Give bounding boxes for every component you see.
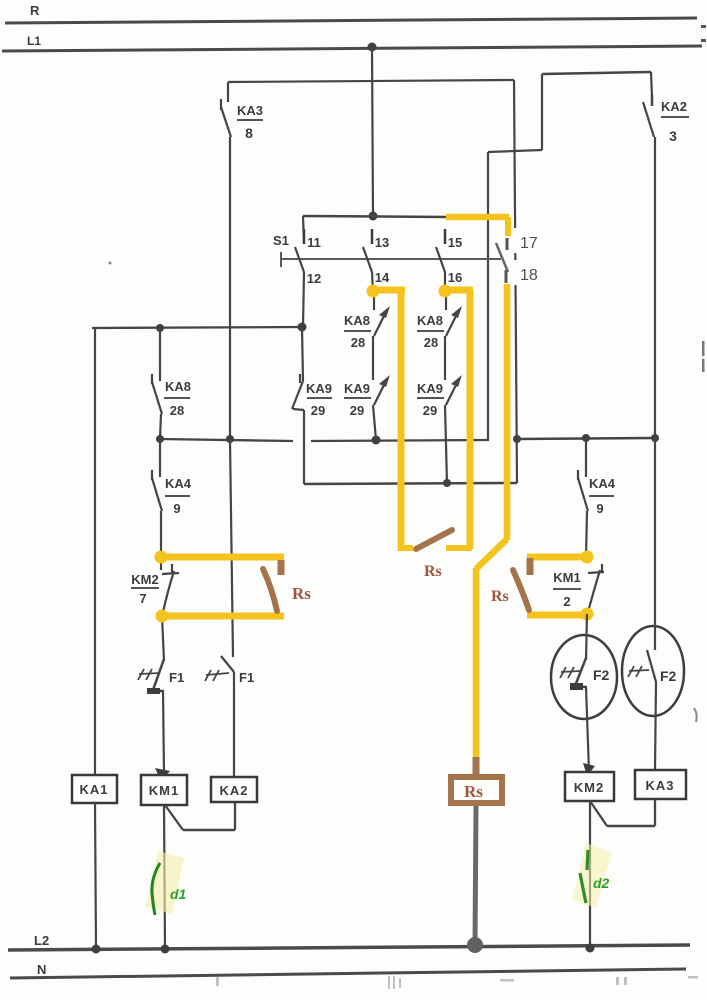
svg-text:KA8: KA8: [417, 313, 443, 328]
svg-text:11: 11: [307, 235, 321, 250]
contact KA9/29 (left, x=305): [292, 327, 332, 418]
svg-text:28: 28: [351, 335, 365, 350]
svg-text:F1: F1: [239, 670, 254, 685]
wire: yellow column from node 16: [439, 285, 474, 550]
svg-text:15: 15: [448, 235, 462, 250]
wire: S1 top bus: [303, 216, 447, 217]
svg-text:F1: F1: [169, 670, 184, 685]
svg-text:F2: F2: [660, 668, 677, 684]
svg-text:Rs: Rs: [292, 584, 311, 603]
wire: right bus to KA4 and KA3 coil branch: [517, 434, 659, 442]
svg-text:29: 29: [350, 403, 364, 418]
wire: top-left horizontal to KA3: [228, 80, 514, 102]
svg-text:d1: d1: [170, 886, 187, 902]
wire: Rs element down to L2 (gray thick): [467, 806, 483, 953]
noise marks bottom caption: [216, 976, 698, 989]
svg-text:KA3: KA3: [645, 778, 674, 793]
annotation d1 (green switch mark): [146, 851, 187, 915]
wire: KA1 branch vertical: [94, 328, 96, 775]
svg-text:KA4: KA4: [165, 476, 192, 491]
svg-text:14: 14: [375, 270, 390, 285]
wire: yellow column from node 14: [367, 285, 414, 552]
contact KA4/9 (left, x=160): [152, 440, 192, 557]
yellow node on KM1 bottom (junction): [527, 608, 594, 621]
switch S1 actuator bar: [273, 233, 501, 267]
wire: top-right horizontal to KA2: [488, 72, 651, 441]
wire: KM1 down to L2: [161, 805, 170, 954]
svg-text:29: 29: [311, 403, 325, 418]
Rs contact blade (center group): [416, 530, 452, 549]
coil KM1: [141, 768, 187, 805]
wire: KA2 coil branch vertical (x=231): [230, 440, 233, 657]
svg-text:KA9: KA9: [417, 381, 443, 396]
Rs contact stub (left group): [278, 560, 285, 575]
contact KA2/3: [643, 72, 689, 144]
svg-text:17: 17: [520, 235, 538, 252]
coil KA2: [211, 777, 257, 802]
svg-text:Rs: Rs: [464, 782, 483, 801]
svg-text:N: N: [37, 962, 46, 977]
contact S1 17-18: [496, 228, 546, 285]
svg-text:d2: d2: [593, 875, 610, 891]
svg-text:KA3: KA3: [237, 103, 263, 118]
svg-text:2: 2: [563, 594, 570, 609]
contact KM2/7 (NC, x=162): [131, 557, 179, 616]
svg-text:28: 28: [424, 335, 438, 350]
svg-text:KM2: KM2: [574, 780, 604, 795]
wire: KM2/KA3 bottom tie: [590, 799, 655, 826]
wire: right long vertical from top-left horizontal down to lower bus: [513, 80, 521, 483]
rail L2: [8, 933, 690, 950]
contact KA8/28 (far left branch, x=160): [152, 328, 191, 443]
wire: mid bus left part: [160, 435, 488, 445]
resistor Rs (box element): [451, 777, 502, 803]
annotation d2 (green switch mark): [572, 843, 612, 908]
svg-text:29: 29: [423, 403, 437, 418]
wire: yellow path through contact 17-18 down to Rs element: [446, 217, 509, 758]
svg-text:9: 9: [173, 501, 180, 516]
svg-text:L1: L1: [27, 34, 41, 48]
svg-text:KM1: KM1: [553, 570, 580, 585]
contact S1 13-14: [363, 229, 390, 292]
svg-text:7: 7: [139, 591, 146, 606]
svg-text:R: R: [30, 3, 40, 18]
wire: KA3 down to mid bus: [229, 137, 231, 439]
contact S1 15-16: [436, 229, 462, 292]
coil KM2: [565, 763, 614, 801]
contact KA8/28 (mid col, x=375): [344, 292, 390, 350]
svg-text:KA2: KA2: [661, 99, 687, 114]
svg-text:3: 3: [669, 128, 677, 144]
svg-text:KA9: KA9: [344, 381, 370, 396]
svg-text:KA4: KA4: [589, 476, 616, 491]
contact KA9/29 (mid col, x=375): [344, 336, 390, 440]
wire: KA2 down to right bus: [654, 137, 656, 438]
yellow node on KM1 top (junction): [527, 551, 594, 564]
wire: brown stub into Rs element: [473, 757, 480, 776]
svg-text:KM2: KM2: [131, 572, 158, 587]
svg-text:9: 9: [596, 501, 603, 516]
svg-text:F2: F2: [593, 667, 610, 683]
wire: KM1/KA2 bottom tie: [165, 802, 235, 830]
rail N: [10, 962, 686, 978]
contact KA8/28 (right col, x=447): [417, 292, 462, 350]
svg-text:KA9: KA9: [306, 381, 332, 396]
Rs contact blade (left group): [263, 569, 277, 611]
noise marks right edge: [109, 25, 707, 722]
overload contact F1 (right, x=233): [205, 656, 254, 778]
Rs contact blade (right group): [513, 570, 529, 610]
wire: left feeder bus y=328: [92, 323, 307, 333]
svg-text:KM1: KM1: [149, 783, 179, 798]
rail R: [5, 3, 697, 23]
svg-text:Rs: Rs: [491, 588, 509, 605]
svg-text:16: 16: [448, 270, 462, 285]
contact KA4/9 (right, x=586): [578, 438, 616, 557]
overload contact F1 (left, x=163): [138, 616, 184, 775]
svg-text:KA8: KA8: [344, 313, 370, 328]
yellow node on KM2 bottom (junction): [156, 610, 285, 623]
contact KA9/29 (right col, x=447): [417, 336, 462, 487]
svg-text:KA2: KA2: [219, 783, 248, 798]
wire: KM2 down to L2: [586, 801, 595, 953]
svg-text:KA1: KA1: [79, 782, 108, 797]
contact KA3/8: [221, 99, 263, 141]
wire: lower bus (bottom of S1 frame): [304, 410, 517, 484]
rail L1: [2, 34, 702, 51]
svg-text:12: 12: [307, 271, 321, 286]
svg-text:13: 13: [375, 235, 389, 250]
Rs contact stub (right group): [527, 558, 534, 575]
yellow node on KM2 top (junction): [155, 551, 285, 564]
svg-text:Rs: Rs: [424, 563, 442, 580]
wire: L1 drop to S1 bus: [368, 43, 378, 221]
contact S1 11-12: [295, 216, 321, 327]
overload F2 (right circle): [622, 438, 684, 770]
svg-text:8: 8: [245, 125, 253, 141]
svg-text:KA8: KA8: [165, 379, 191, 394]
overload F2 (left circle): [551, 614, 617, 772]
coil KA3: [635, 770, 686, 799]
svg-text:18: 18: [520, 267, 538, 284]
coil KA1: [72, 775, 117, 954]
contact KM1/2 (NC, x=587): [553, 564, 604, 612]
svg-text:L2: L2: [34, 933, 49, 948]
svg-text:S1: S1: [273, 233, 289, 248]
svg-text:28: 28: [170, 403, 184, 418]
